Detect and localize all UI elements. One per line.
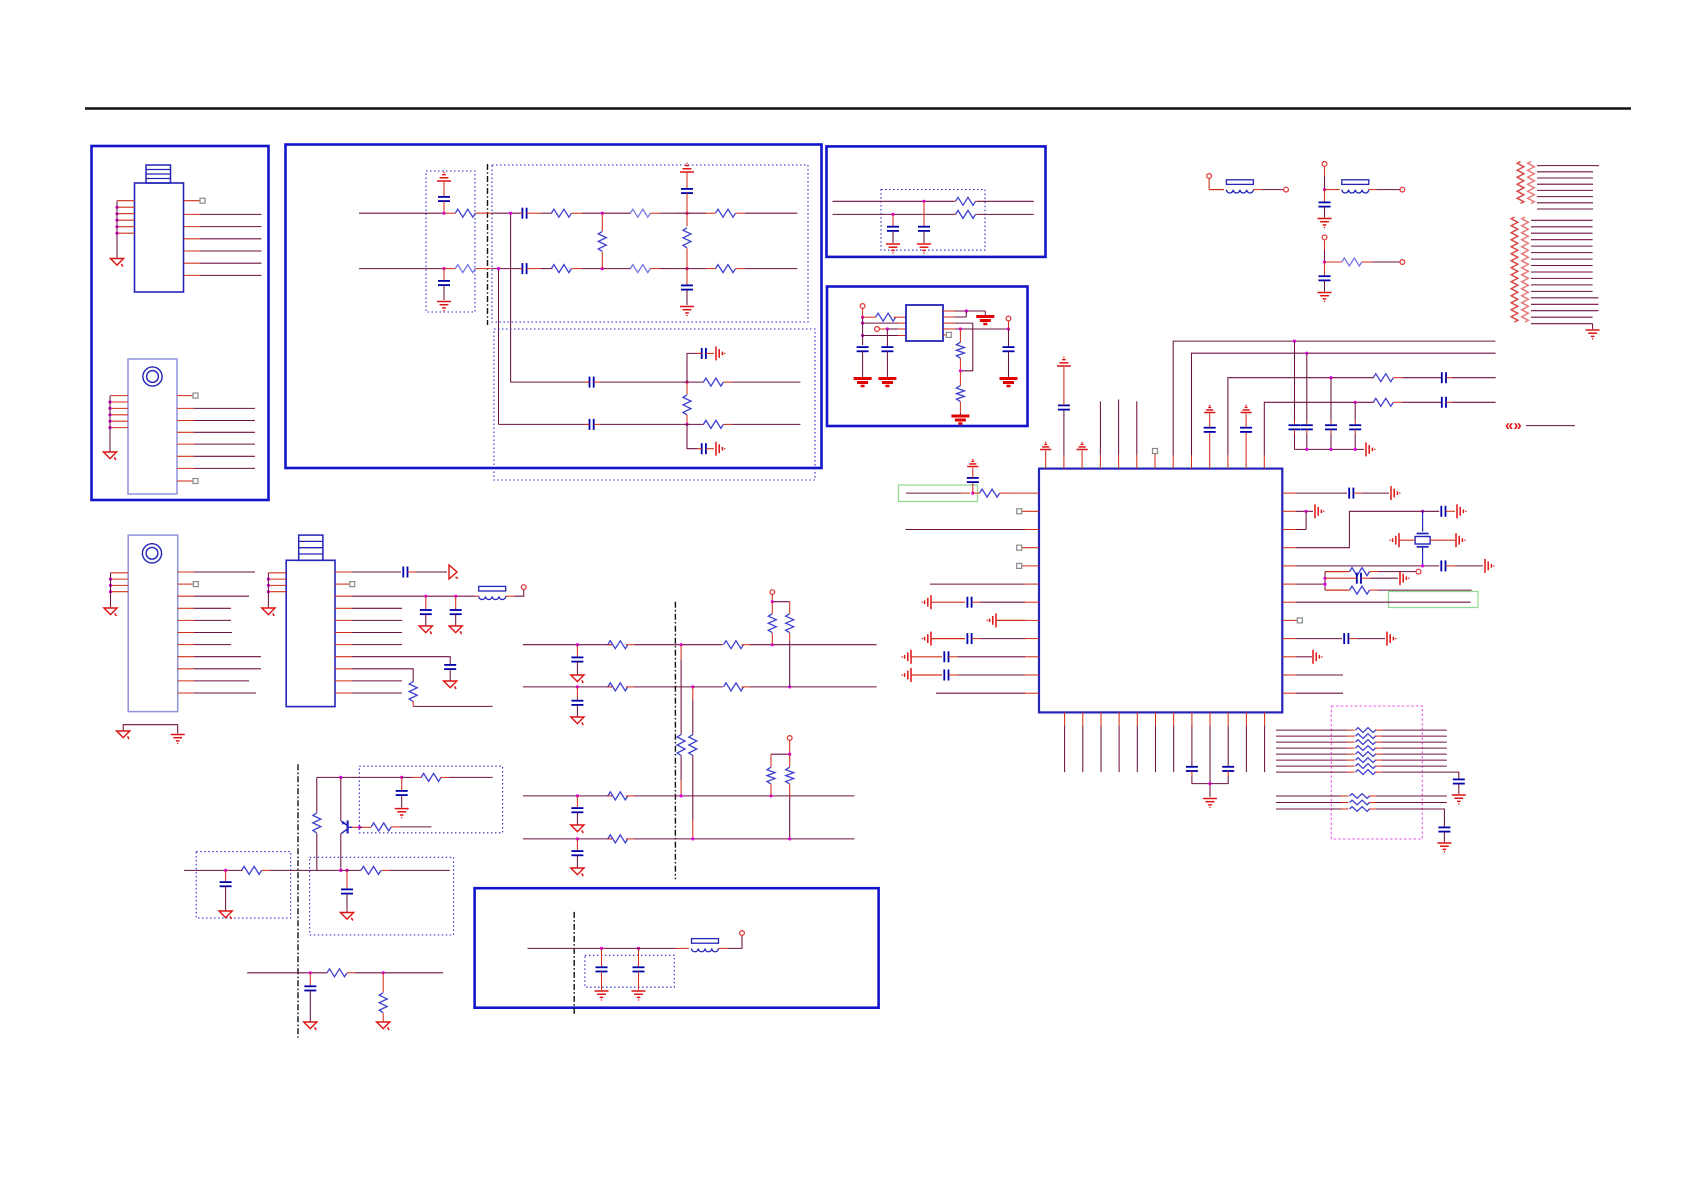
junction xyxy=(309,971,312,974)
ground xyxy=(595,991,609,1000)
resistor R49 (vertical) xyxy=(677,645,685,796)
terminal xyxy=(521,585,526,590)
dotted box common-mode caps xyxy=(426,171,475,312)
wire xyxy=(789,796,791,839)
resistor R41 xyxy=(327,969,355,977)
resistor R37 (vertical) xyxy=(313,777,321,870)
resistor R11 xyxy=(703,378,732,386)
resistor R43 xyxy=(608,641,634,649)
resistor network RN1 element B xyxy=(1528,162,1535,204)
wire U1 bottom pin 4 xyxy=(1118,712,1120,772)
dash-dot line K xyxy=(297,764,299,1038)
resistor R5 xyxy=(630,209,660,217)
wire data line 10 xyxy=(1276,802,1447,804)
wire xyxy=(425,596,427,610)
wire xyxy=(1362,492,1389,494)
junction xyxy=(1007,327,1010,330)
wire xyxy=(576,839,578,851)
power flag P1 xyxy=(437,172,451,181)
wire xyxy=(862,308,864,317)
wire xyxy=(789,641,791,687)
wire xyxy=(1362,261,1400,263)
wire RN2 line 5 xyxy=(1531,245,1593,247)
capacitor C31 (series) xyxy=(1325,573,1370,584)
wire xyxy=(1378,571,1416,573)
wire xyxy=(660,268,676,270)
junction xyxy=(115,219,118,222)
wire U1 bottom pin 3 xyxy=(1100,712,1102,772)
wire xyxy=(346,894,348,913)
wire xyxy=(1422,511,1424,531)
wire xyxy=(444,268,456,270)
ground (arrow) xyxy=(377,1022,390,1030)
wire J3 shield xyxy=(123,725,178,734)
wire xyxy=(1452,401,1496,403)
wire RN2 line 14 xyxy=(1531,303,1598,305)
ground (right) xyxy=(716,442,725,456)
wire RN2 line 16 xyxy=(1531,316,1593,318)
capacitor C33 xyxy=(1186,767,1198,771)
connector J1 NC pin xyxy=(184,198,206,203)
resistor R26 xyxy=(1356,734,1376,739)
resistor R47 (vertical) xyxy=(768,602,776,645)
wire J3 right pin 10 xyxy=(178,680,249,682)
wire xyxy=(638,948,640,967)
wire xyxy=(443,285,445,300)
power flag xyxy=(1057,357,1071,366)
wire xyxy=(225,886,227,911)
junction xyxy=(267,584,270,587)
wire xyxy=(1245,414,1247,428)
wire RN2 line 11 xyxy=(1531,284,1593,286)
terminal VOUT xyxy=(1006,316,1011,321)
junction xyxy=(339,869,342,872)
wire line2 right xyxy=(745,268,797,270)
dotted box coupling stage xyxy=(494,329,815,480)
ground xyxy=(854,379,872,387)
ground (arrow) xyxy=(219,911,232,919)
capacitor C7 (series) xyxy=(585,377,600,388)
wire U1 right pin 2 xyxy=(1282,510,1313,512)
wire RN1 line 8 xyxy=(1537,208,1593,210)
resistor R20 xyxy=(1373,374,1402,382)
wire lineC2 right xyxy=(977,213,1034,215)
box: line filter group xyxy=(286,145,822,469)
wire xyxy=(1357,638,1385,640)
capacitor C30 (series) xyxy=(1441,560,1455,571)
wire xyxy=(676,212,706,214)
wire J1 right pin 4 xyxy=(184,238,262,240)
resistor R7 xyxy=(706,209,745,217)
wire xyxy=(576,796,578,808)
capacitor C10 (series) xyxy=(697,443,714,454)
wire J3 gnd xyxy=(110,573,112,608)
power flag xyxy=(1077,442,1088,449)
wire xyxy=(346,870,348,889)
resistor R2 xyxy=(455,265,492,273)
U1 right pin 8 NC xyxy=(1282,618,1302,623)
wire RN2 line 2 xyxy=(1531,226,1593,228)
wire RN2 line 17 xyxy=(1531,323,1593,325)
wire lineC1 xyxy=(833,200,955,202)
junction xyxy=(345,869,348,872)
wire J4 right pin 10 xyxy=(335,680,402,682)
wire RN2 line 15 xyxy=(1531,310,1598,312)
resistor R23 xyxy=(1325,568,1378,576)
wire U1 right pin 4 xyxy=(1282,511,1418,547)
wire xyxy=(443,181,445,197)
dash-dot line L xyxy=(674,602,676,880)
wire data line 2 xyxy=(1276,735,1447,737)
capacitor C32 (series) xyxy=(1344,633,1357,644)
capacitor C34 xyxy=(1222,767,1234,771)
resistor R52 (vertical) xyxy=(767,754,775,796)
wire Q1 base xyxy=(348,826,360,828)
wire xyxy=(660,212,676,214)
connector J1 body xyxy=(135,183,184,292)
resistor R45 xyxy=(608,683,634,691)
wire xyxy=(506,590,524,597)
capacitor C38 xyxy=(420,610,432,614)
wire xyxy=(772,595,789,602)
wire xyxy=(676,268,706,270)
wire xyxy=(1370,577,1398,579)
capacitor C50 xyxy=(633,967,645,971)
capacitor C9 (series) xyxy=(697,348,714,359)
wire data line 6 xyxy=(1276,759,1447,761)
capacitor C28 (series) xyxy=(1349,488,1362,499)
wire stub down xyxy=(687,424,697,448)
wire U1 bottom pin 12 xyxy=(1264,712,1266,772)
resistor R18 (vertical) xyxy=(956,371,964,413)
resistor R14 xyxy=(954,197,977,205)
resistor R12 xyxy=(703,420,732,428)
wire J1 gnd xyxy=(116,201,118,259)
junction xyxy=(861,316,864,319)
resistor R15 xyxy=(954,210,977,218)
junction xyxy=(115,225,118,228)
wire xyxy=(1209,178,1224,189)
ground (right) xyxy=(1313,650,1322,664)
wire RN1 line 6 xyxy=(1537,196,1593,198)
wire xyxy=(1455,772,1459,779)
wire xyxy=(360,826,372,828)
junction xyxy=(358,826,361,829)
box: USB connector group xyxy=(92,146,269,500)
wire xyxy=(600,381,676,383)
wire U1 top pin 4 xyxy=(1099,401,1101,468)
wire xyxy=(341,869,361,871)
wire xyxy=(1369,189,1400,191)
wire line1 right xyxy=(745,212,797,214)
wire data line 8 xyxy=(1276,771,1455,773)
connector J3 NC pin xyxy=(178,582,199,587)
junction xyxy=(1323,583,1326,586)
terminal xyxy=(1207,174,1212,179)
junction xyxy=(108,420,111,423)
wire RN1 line 5 xyxy=(1537,189,1593,191)
wire xyxy=(309,973,311,986)
capacitor C35 xyxy=(1453,779,1465,783)
junction xyxy=(442,267,445,270)
wire xyxy=(879,328,906,330)
wire xyxy=(1008,351,1010,377)
resistor R4 xyxy=(551,265,582,273)
wire xyxy=(355,972,443,974)
connector J1 left pin 5 xyxy=(117,226,135,228)
wire xyxy=(1330,430,1332,450)
junction xyxy=(1323,260,1326,263)
wire xyxy=(582,268,631,270)
wire U1 right pin 9 xyxy=(1282,638,1342,640)
wire xyxy=(444,212,456,214)
wire decoupling V1 xyxy=(1294,341,1296,425)
wire xyxy=(972,482,974,493)
wire RN2 line 1 xyxy=(1531,219,1593,221)
wire xyxy=(270,869,341,871)
junction xyxy=(886,327,889,330)
wire xyxy=(686,172,688,189)
terminal xyxy=(1322,235,1327,240)
U1 top pin 3 xyxy=(1081,451,1083,469)
junction xyxy=(424,595,427,598)
junction xyxy=(1421,564,1424,567)
junction xyxy=(576,643,579,646)
wire xyxy=(984,311,986,315)
resistor R31 xyxy=(1356,764,1376,769)
wire xyxy=(886,351,888,377)
wire xyxy=(1294,430,1296,450)
wire xyxy=(1324,190,1326,203)
junction xyxy=(637,947,640,950)
U1 top pin 7 NC xyxy=(1153,449,1158,469)
connector J4 left pin 2 xyxy=(268,578,286,580)
capacitor C37 (series) xyxy=(403,567,416,578)
wire data line 3 xyxy=(1276,741,1447,743)
ground xyxy=(1437,843,1451,852)
green annotation box xyxy=(1389,592,1479,608)
wire xyxy=(1063,367,1065,405)
wire line4 right xyxy=(732,423,800,425)
terminal xyxy=(1322,162,1327,167)
wire xyxy=(1402,401,1442,403)
connector J2 index circle xyxy=(143,367,162,386)
wire decoupling V2 xyxy=(1306,353,1308,425)
wire J1 right pin 2 xyxy=(184,213,262,215)
resistor R10 (vertical) xyxy=(683,213,691,268)
isolation dash-dot line xyxy=(487,164,489,325)
capacitor C40 xyxy=(444,665,456,669)
ground (left) xyxy=(987,613,996,627)
wire U1 top pin 2 xyxy=(1063,410,1065,469)
resistor network RN2 element A xyxy=(1511,217,1518,322)
wire data line 11 xyxy=(1276,808,1438,810)
capacitor C13 xyxy=(857,347,869,351)
ground xyxy=(1452,795,1466,804)
wire xyxy=(686,193,688,213)
wire J4 right pin 11 xyxy=(335,692,402,694)
wire drop B xyxy=(498,269,500,425)
junction xyxy=(109,578,112,581)
U1 left pin 2 NC xyxy=(1017,509,1039,514)
terminal EN xyxy=(875,327,880,332)
connector J2 left pin 1 xyxy=(110,395,128,397)
capacitor C19 xyxy=(1204,428,1216,432)
junction xyxy=(691,837,694,840)
power flag xyxy=(967,459,978,466)
resistor R16 xyxy=(863,313,906,321)
wire xyxy=(309,991,311,1022)
wire line2 left xyxy=(359,268,444,270)
resistor R28 xyxy=(1356,746,1376,751)
junction xyxy=(339,776,342,779)
wire line3 xyxy=(511,381,585,383)
junction xyxy=(1329,448,1332,451)
ground xyxy=(632,991,646,1000)
junction xyxy=(1323,577,1326,580)
ground xyxy=(1318,219,1332,228)
wire RN2 line 12 xyxy=(1531,290,1593,292)
crystal Y1 xyxy=(1415,534,1430,547)
wire xyxy=(1210,771,1228,784)
capacitor C49 xyxy=(596,967,608,971)
resistor R1 xyxy=(455,209,492,217)
capacitor C24 xyxy=(1301,425,1313,429)
capacitor C36 xyxy=(1438,827,1450,831)
wire xyxy=(676,381,704,383)
junction xyxy=(224,869,227,872)
capacitor C18 xyxy=(1058,405,1070,409)
ground (left) xyxy=(1390,533,1399,547)
wire J3 right pin 6 xyxy=(178,632,232,634)
wire L3 xyxy=(523,795,612,797)
wire U1 right pin 10 xyxy=(1282,656,1312,658)
wire line1 left xyxy=(359,212,444,214)
wire U1 top pin 11 xyxy=(1228,378,1374,469)
wire xyxy=(401,795,403,807)
box: regulator group xyxy=(827,287,1028,427)
ground xyxy=(878,379,896,387)
resistor R32 xyxy=(1356,770,1376,775)
connector J3 index circle xyxy=(142,544,161,563)
wire J4 right pin 7 xyxy=(335,644,402,646)
box: termination group xyxy=(827,146,1046,257)
wire xyxy=(455,596,457,610)
wire RN2 line 13 xyxy=(1531,297,1598,299)
resistor R25 xyxy=(1356,728,1376,733)
wire xyxy=(390,869,450,871)
wire L4 xyxy=(523,838,612,840)
capacitor C27 xyxy=(967,478,979,482)
resistor R30 xyxy=(1356,758,1376,763)
dotted box K2 xyxy=(310,857,454,935)
U1 top pin 12 xyxy=(1245,432,1247,469)
dotted box K1 xyxy=(359,766,502,833)
connector J1 left pin 4 xyxy=(117,219,135,221)
wire xyxy=(400,826,432,828)
wire RN2 line 8 xyxy=(1531,265,1593,267)
wire xyxy=(541,212,552,214)
wire U2 out1 xyxy=(943,310,985,312)
terminal xyxy=(1400,260,1405,265)
junction xyxy=(1421,510,1424,513)
ground xyxy=(1586,330,1600,339)
capacitor C8 (series) xyxy=(585,419,600,430)
wire xyxy=(943,311,966,317)
wire J1 right pin 3 xyxy=(184,226,262,228)
wire J2 right pin 7 xyxy=(177,467,255,469)
capacitor C43 xyxy=(341,889,353,893)
wire U1 bottom pin 7 xyxy=(1173,712,1175,772)
wire lineC2 xyxy=(833,213,955,215)
wire xyxy=(340,777,342,821)
wire xyxy=(1324,207,1326,218)
junction xyxy=(1208,782,1211,785)
terminal xyxy=(770,590,775,595)
wire RN2 line 3 xyxy=(1531,232,1593,234)
wire J1 right pin 7 xyxy=(184,274,262,276)
wire J4 right pin 1 xyxy=(335,571,401,573)
page top rule xyxy=(85,107,1631,109)
wire xyxy=(449,776,493,778)
capacitor C2 xyxy=(438,281,450,285)
junction xyxy=(108,400,111,403)
resistor R9 xyxy=(706,265,745,273)
wire xyxy=(634,795,854,797)
NC pin xyxy=(943,332,951,337)
capacitor C41 xyxy=(396,791,408,795)
U1 top pin 10 xyxy=(1209,432,1211,469)
wire xyxy=(1008,321,1010,347)
wire xyxy=(1324,240,1326,262)
capacitor C47 xyxy=(571,808,583,812)
resistor R35 xyxy=(1350,807,1370,812)
wire line1 mid xyxy=(492,212,520,214)
wire xyxy=(892,231,894,243)
junction xyxy=(115,212,118,215)
wire RN1 line 1 xyxy=(1537,165,1599,167)
wire xyxy=(455,614,457,626)
wire xyxy=(719,935,743,948)
junction xyxy=(788,837,791,840)
wire J3 right pin 7 xyxy=(178,644,231,646)
junction xyxy=(442,212,445,215)
wire J3 right pin 9 xyxy=(178,668,261,670)
wire xyxy=(1399,539,1415,541)
wire U1 bottom pin 1 xyxy=(1064,712,1066,772)
junction xyxy=(685,267,688,270)
wire U1 top pin 8 xyxy=(1173,341,1495,469)
wire xyxy=(1011,492,1039,494)
connector J3 left pin 3 xyxy=(111,584,129,586)
wire RN1 line 4 xyxy=(1537,183,1593,185)
junction xyxy=(788,685,791,688)
wire U1 left pin 11 xyxy=(911,670,1039,681)
terminal VIN xyxy=(860,304,865,309)
ground xyxy=(437,302,451,311)
wire decoupling V3 xyxy=(1330,378,1332,425)
svg-text:«»: «» xyxy=(1505,417,1522,434)
ground xyxy=(171,735,185,744)
resistor network RN2 element B xyxy=(1522,217,1529,322)
wire xyxy=(576,705,578,717)
resistor R24 xyxy=(1325,586,1378,594)
wire L6 xyxy=(247,972,327,974)
wire xyxy=(923,231,925,243)
power flag xyxy=(1241,405,1252,412)
connector J1 left pin 2 xyxy=(117,206,135,208)
junction xyxy=(267,578,270,581)
